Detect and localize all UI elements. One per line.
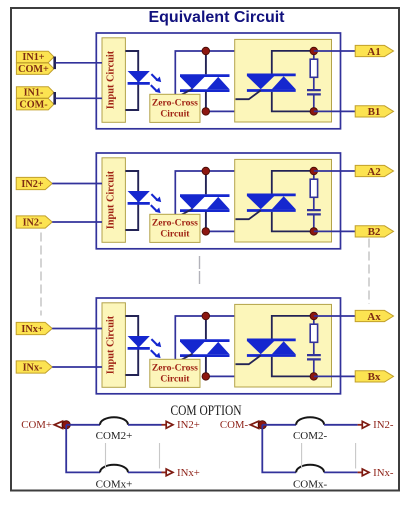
svg-text:Circuit: Circuit <box>160 228 190 239</box>
svg-text:A2: A2 <box>367 166 381 178</box>
terminal IN1+/COM+ <box>16 51 54 75</box>
wire (A rail out) <box>314 315 356 317</box>
svg-text:Equivalent Circuit: Equivalent Circuit <box>148 9 285 26</box>
input circuit box Uxa <box>102 303 125 388</box>
svg-text:Zero-Cross: Zero-Cross <box>152 362 198 373</box>
svg-text:IN1+: IN1+ <box>22 52 44 63</box>
LED emission arrows <box>151 74 161 93</box>
power triac Qx <box>247 340 296 356</box>
capacitor C1 (snubber) <box>307 90 321 111</box>
svg-text:IN2+: IN2+ <box>21 179 43 190</box>
svg-text:Ax: Ax <box>367 311 381 323</box>
node dot (B rail / snubber) <box>310 228 318 236</box>
svg-text:B2: B2 <box>368 226 381 238</box>
COM OPTION heading <box>171 403 242 419</box>
wire <box>262 424 296 426</box>
continuation dashed line (right, B2 to Ax) <box>368 239 370 305</box>
wire <box>128 471 166 473</box>
resistor R1 (snubber) <box>310 51 317 89</box>
photo-triac Q2a <box>180 171 230 231</box>
wire (B rail) <box>206 375 236 377</box>
zero-cross circuit Uxb <box>150 359 200 387</box>
jumper arc COMx- <box>293 465 328 491</box>
input arrow for COM- <box>250 421 258 428</box>
svg-text:INx-: INx- <box>373 467 394 479</box>
power triac Q1 <box>247 75 296 91</box>
zero-cross circuit U1b <box>150 94 200 122</box>
node dot (B rail / photo-triac) <box>202 108 210 116</box>
gate wire of Q2a <box>179 209 192 216</box>
wire <box>52 183 102 185</box>
output arrow to INx- <box>362 467 394 479</box>
wire <box>56 97 103 99</box>
wire <box>66 424 100 426</box>
terminal Ax <box>355 310 393 322</box>
node dot (A rail / photo-triac) <box>202 312 210 320</box>
joining bar for IN1+/COM+ <box>53 57 56 70</box>
wire (triac MT2 riser) <box>272 171 314 195</box>
LED Dx <box>128 336 150 348</box>
opto-triac relay block 2 <box>96 153 340 249</box>
svg-text:COM OPTION: COM OPTION <box>171 403 242 419</box>
wire (B rail) <box>206 110 236 112</box>
jumper arc COMx+ <box>96 465 133 491</box>
svg-text:Input Circuit: Input Circuit <box>106 170 117 229</box>
COM+ terminal label <box>21 419 52 431</box>
terminal B1 <box>355 106 393 118</box>
terminal A2 <box>355 165 393 177</box>
output triac box (yellow) <box>235 304 332 387</box>
wire (LED loop) <box>125 171 138 230</box>
continuation line (middle, block 2 to block x) <box>199 256 201 286</box>
terminal IN1-/COM- <box>16 87 54 111</box>
capacitor Cx (snubber) <box>307 355 321 376</box>
COM- terminal label <box>220 419 249 431</box>
svg-text:IN2+: IN2+ <box>177 419 200 431</box>
jumper arc COM2+ <box>96 417 133 442</box>
terminal INx- <box>16 361 52 374</box>
jumper arc COM2- <box>293 417 328 442</box>
svg-text:B1: B1 <box>368 106 381 118</box>
node dot (A rail / snubber) <box>310 47 318 55</box>
terminal A1 <box>355 45 393 57</box>
svg-text:COMx-: COMx- <box>293 478 328 490</box>
wire <box>56 62 103 64</box>
wire <box>52 366 102 368</box>
wire (LED loop) <box>125 51 138 110</box>
svg-text:Circuit: Circuit <box>160 108 190 119</box>
terminal Bx <box>355 371 393 383</box>
node dot (B rail / snubber) <box>310 373 318 381</box>
LED D1 <box>128 71 150 83</box>
wire (down leg) <box>262 425 296 473</box>
output arrow to IN2- <box>362 419 394 431</box>
capacitor C2 (snubber) <box>307 210 321 231</box>
continuation dashed line (left, IN2- to INx+) <box>40 233 42 316</box>
svg-text:COM2+: COM2+ <box>96 430 133 442</box>
wire (A rail / zero-cross feed) <box>175 51 235 94</box>
wire (A rail out) <box>314 50 356 52</box>
svg-text:INx+: INx+ <box>177 467 200 479</box>
svg-text:Zero-Cross: Zero-Cross <box>152 217 198 228</box>
svg-text:IN2-: IN2- <box>23 218 43 229</box>
node dot (A rail / photo-triac) <box>202 167 210 175</box>
wire <box>324 471 362 473</box>
title: Equivalent Circuit <box>148 9 285 26</box>
continuation marks <box>302 443 356 469</box>
power triac Q2 <box>247 195 296 211</box>
wire <box>52 328 102 330</box>
wire (triac MT2 riser) <box>272 316 314 340</box>
svg-text:IN2-: IN2- <box>373 419 394 431</box>
opto-triac relay block x <box>96 298 340 394</box>
wire <box>52 221 102 223</box>
zero-cross circuit U2b <box>150 214 200 242</box>
svg-text:Zero-Cross: Zero-Cross <box>152 97 198 108</box>
opto-triac relay block 1 <box>96 33 340 129</box>
LED emission arrows <box>151 194 161 213</box>
wire (triac MT1 drop) <box>272 357 314 377</box>
node dot (B rail / photo-triac) <box>202 228 210 236</box>
joining bar for IN1-/COM- <box>53 92 56 105</box>
wire (down leg) <box>66 425 100 473</box>
wire (B rail out) <box>314 230 356 232</box>
resistor R2 (snubber) <box>310 171 317 209</box>
output arrow to INx+ <box>166 467 200 479</box>
svg-text:COM-: COM- <box>19 99 48 110</box>
input circuit box U1a <box>102 38 125 123</box>
wire (LED loop) <box>125 316 138 375</box>
wire (A rail out) <box>314 170 356 172</box>
svg-text:COM+: COM+ <box>21 419 52 431</box>
wire <box>324 424 362 426</box>
node dot (A rail / snubber) <box>310 312 318 320</box>
wire (triac MT1 drop) <box>272 92 314 112</box>
input arrow for COM+ <box>54 421 62 428</box>
svg-text:COM2-: COM2- <box>293 430 328 442</box>
LED D2 <box>128 191 150 203</box>
gate wire of Q2 <box>236 210 261 219</box>
svg-text:Input Circuit: Input Circuit <box>106 50 117 109</box>
svg-text:INx-: INx- <box>23 363 43 374</box>
gate wire of Qxa <box>179 354 192 361</box>
svg-text:Bx: Bx <box>368 371 381 383</box>
continuation marks <box>106 443 160 469</box>
terminal INx+ <box>16 322 52 335</box>
photo-triac Qxa <box>180 316 230 376</box>
node dot (A rail / photo-triac) <box>202 47 210 55</box>
input circuit box U2a <box>102 158 125 243</box>
photo-triac Q1a <box>180 51 230 111</box>
svg-text:IN1-: IN1- <box>24 88 44 99</box>
output triac box (yellow) <box>235 159 332 242</box>
gate wire of Q1 <box>236 90 261 99</box>
wire (A rail / zero-cross feed) <box>175 171 235 214</box>
svg-text:Input Circuit: Input Circuit <box>106 315 117 374</box>
terminal IN2+ <box>16 177 52 190</box>
wire <box>128 424 166 426</box>
svg-text:COM-: COM- <box>220 419 249 431</box>
wire (B rail out) <box>314 375 356 377</box>
wire (triac MT2 riser) <box>272 51 314 75</box>
output triac box (yellow) <box>235 39 332 122</box>
wire (triac MT1 drop) <box>272 212 314 232</box>
svg-text:COM+: COM+ <box>18 64 49 75</box>
output arrow to IN2+ <box>166 419 200 431</box>
node dot (COM+) <box>62 421 70 429</box>
gate wire of Qx <box>236 355 261 364</box>
wire (B rail) <box>206 230 236 232</box>
node dot (B rail / photo-triac) <box>202 373 210 381</box>
svg-text:Circuit: Circuit <box>160 373 190 384</box>
node dot (A rail / snubber) <box>310 167 318 175</box>
wire (B rail out) <box>314 110 356 112</box>
terminal B2 <box>355 226 393 238</box>
wire (A rail / zero-cross feed) <box>175 316 235 359</box>
terminal IN2- <box>16 216 52 229</box>
LED emission arrows <box>151 339 161 358</box>
node dot (B rail / snubber) <box>310 108 318 116</box>
svg-text:INx+: INx+ <box>21 324 43 335</box>
svg-text:A1: A1 <box>367 46 380 58</box>
resistor Rx (snubber) <box>310 316 317 354</box>
node dot (COM-) <box>258 421 266 429</box>
gate wire of Q1a <box>179 89 192 96</box>
svg-text:COMx+: COMx+ <box>96 478 133 490</box>
